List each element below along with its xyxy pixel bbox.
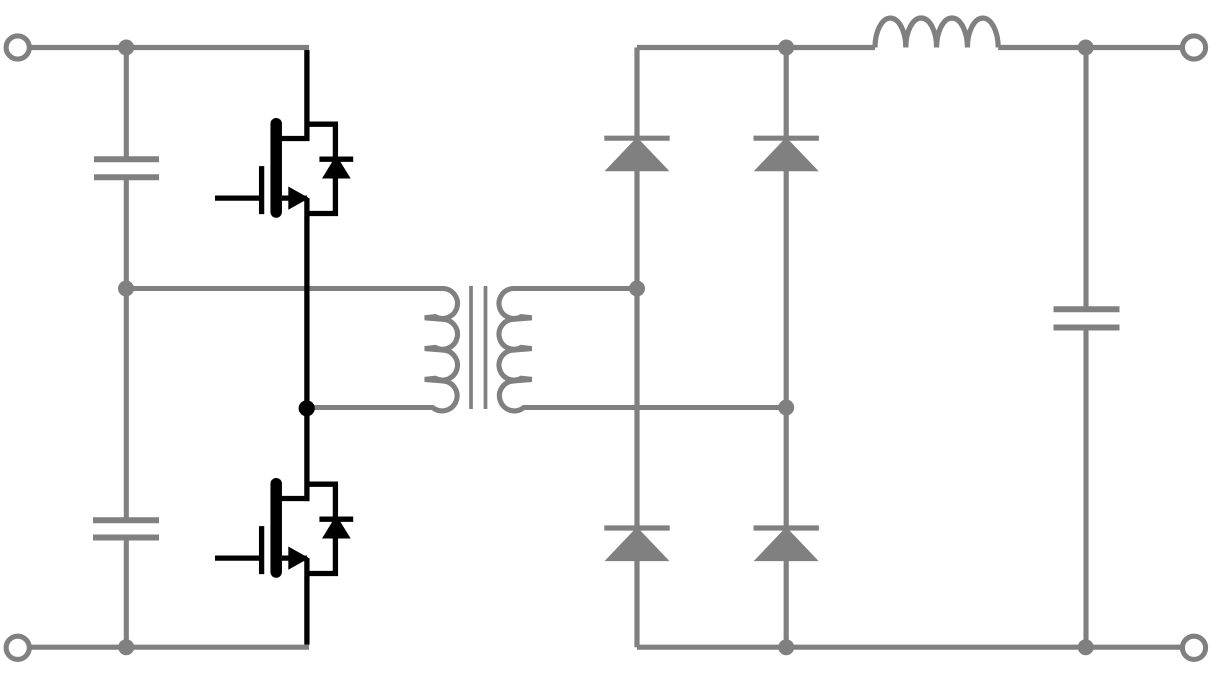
wire output cap bottom lead [1083,330,1088,647]
capacitor C1 [94,159,159,177]
transformer core [471,286,486,409]
wire C1 top lead [124,48,129,158]
node top bridge junction [778,40,794,56]
diode D3 [604,527,669,561]
transistor Q2 [215,484,353,574]
node bottom bridge junction [778,639,794,655]
node output top junction [1078,40,1094,56]
diode D4 [754,527,819,561]
capacitor C2 [93,520,159,537]
node secondary bottom junction [778,400,794,416]
node output bottom junction [1078,639,1094,655]
node bottom-left junction [118,639,134,655]
wire bottom-right rail [637,645,1184,650]
transformer primary winding (with top wire from mid-left node and bottom wire to half-bridge node) [126,289,457,411]
wire inductor to output terminal [998,45,1184,50]
node top-left junction [118,40,134,56]
wire right bridge leg [784,48,789,648]
wire C2 top lead [124,289,129,518]
wire left bridge leg [634,48,639,648]
transistor Q1 [215,124,353,214]
diode D1 [604,137,669,171]
node half-bridge midpoint [299,400,315,416]
wire output cap top lead [1083,48,1088,308]
terminal output + [1182,36,1205,59]
terminal input - [6,636,29,659]
wire C2 bottom lead [124,540,129,647]
wire bottom-left rail [28,645,309,650]
terminal input + [6,36,29,59]
wire top-right rail [637,45,875,50]
node mid-left junction [118,281,134,297]
terminal output - [1182,636,1205,659]
wire Q2 source lead [304,558,309,645]
wire top-left rail [28,45,309,50]
wire Q1 source to Q2 drain [304,198,309,501]
capacitor C3 [1054,309,1120,327]
inductor L1 [875,18,998,47]
wire Q1 drain lead [304,50,309,141]
transformer secondary winding (with top wire to rectifier node and bottom wire to rectifier node) [499,289,786,411]
diode D2 [754,137,819,171]
wire C1 bottom lead [124,180,129,289]
node secondary top junction [629,281,645,297]
